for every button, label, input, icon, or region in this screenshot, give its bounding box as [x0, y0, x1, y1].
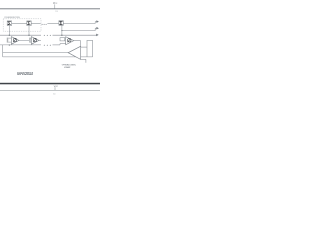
svg-text:VCC: VCC	[53, 2, 58, 5]
svg-text:MAX2014: MAX2014	[17, 71, 34, 76]
svg-text:MODE AMP: MODE AMP	[64, 66, 71, 69]
svg-text:POWER DETECTORS: POWER DETECTORS	[4, 17, 20, 19]
svg-text:VCC: VCC	[54, 86, 59, 88]
